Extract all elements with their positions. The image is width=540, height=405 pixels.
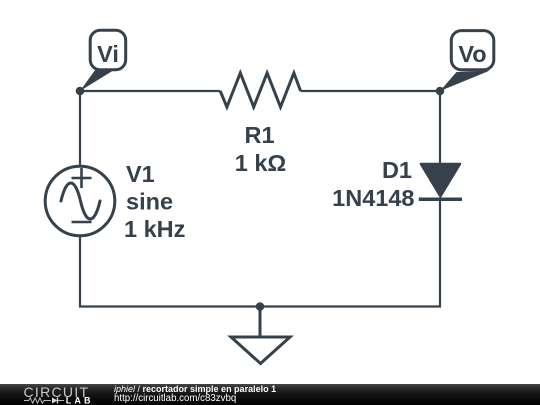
node Vi flag (90, 30, 126, 70)
wire top-left segment (node Vi to resistor) (80, 90, 220, 92)
wire right rail lower (diode cathode to bottom rail) (439, 199, 441, 307)
wire bottom rail (79, 305, 441, 307)
wire left rail upper (node Vi down to V1 top) (79, 91, 81, 166)
resistor R1 (220, 73, 300, 107)
footer bar (0, 384, 540, 405)
svg-text:1 kΩ: 1 kΩ (235, 150, 287, 176)
svg-text:V1: V1 (126, 161, 155, 187)
wire right rail upper (node Vo to diode anode) (439, 91, 441, 165)
ground (231, 307, 290, 364)
junction node at Vi (76, 87, 85, 96)
svg-text:1 kHz: 1 kHz (124, 216, 185, 242)
svg-text:LAB: LAB (66, 396, 94, 405)
svg-text:D1: D1 (382, 157, 412, 183)
node Vo flag tail (440, 71, 490, 92)
CircuitLab logo (0, 384, 100, 405)
junction node at ground (256, 302, 265, 311)
wire top-right segment (resistor to node Vo) (301, 90, 440, 92)
node Vo flag (451, 31, 494, 70)
node Vi flag tail (80, 66, 114, 91)
diode D1 (419, 164, 462, 200)
footer url line (114, 394, 236, 404)
junction node at Vo (436, 87, 445, 96)
svg-text:Vi: Vi (97, 41, 119, 67)
wire left rail lower (V1 bottom to bottom rail) (79, 236, 81, 308)
svg-text:Vo: Vo (458, 41, 486, 67)
svg-text:R1: R1 (244, 122, 274, 148)
voltage source V1 (45, 166, 115, 236)
svg-text:1N4148: 1N4148 (332, 185, 414, 211)
svg-text:sine: sine (126, 189, 173, 215)
footer credit line (114, 384, 276, 394)
